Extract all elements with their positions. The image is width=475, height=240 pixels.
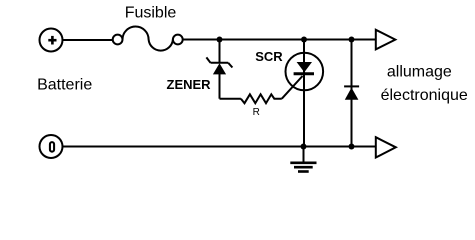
svg-text:Batterie: Batterie: [37, 77, 92, 94]
svg-text:ZENER: ZENER: [167, 77, 212, 92]
svg-text:R: R: [253, 107, 260, 118]
svg-text:SCR: SCR: [255, 49, 283, 64]
svg-text:Fusible: Fusible: [125, 4, 177, 21]
svg-text:allumage: allumage: [387, 63, 452, 80]
svg-text:électronique: électronique: [381, 87, 468, 104]
